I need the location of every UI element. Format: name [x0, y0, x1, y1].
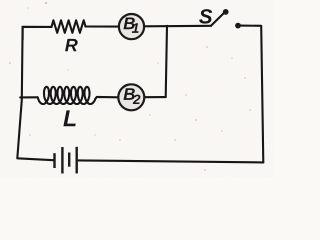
- switch contact dot right: [235, 23, 241, 29]
- switch contact dot left: [223, 9, 229, 15]
- inductor L coil: [38, 87, 96, 104]
- label B2: [124, 88, 135, 100]
- wire: bulb B1 to switch contact: [144, 25, 211, 28]
- bulb B2 circle: [118, 84, 144, 110]
- battery cell plate short 1: [53, 153, 55, 168]
- wire: bulb B2 to junction: [144, 96, 165, 98]
- label L: [63, 110, 75, 126]
- scan speckles: [9, 2, 246, 171]
- wire: resistor to bulb B1: [86, 25, 120, 27]
- battery cell plate tall 2: [75, 147, 77, 174]
- wire: inductor to bulb B2: [95, 97, 118, 99]
- wire: switch right contact to top-right corner, down right side: [240, 26, 263, 163]
- battery cell plate short 2: [68, 153, 70, 167]
- label S: [199, 9, 212, 24]
- label R: [65, 39, 78, 51]
- switch S lever: [211, 13, 224, 26]
- wire: battery to bottom-left corner, up left side: [17, 27, 53, 160]
- wire: top-left corner to resistor: [23, 27, 52, 40]
- resistor R1 zigzag: [52, 20, 86, 33]
- wire: bottom right to battery: [78, 160, 263, 162]
- battery cell plate tall 1: [61, 147, 63, 174]
- bulb B1 circle: [119, 14, 144, 39]
- wire: junction vertical (top branch to L branch): [166, 26, 167, 97]
- label B1: [124, 18, 135, 30]
- paper background: [0, 0, 273, 177]
- wire: left side to inductor: [20, 96, 37, 98]
